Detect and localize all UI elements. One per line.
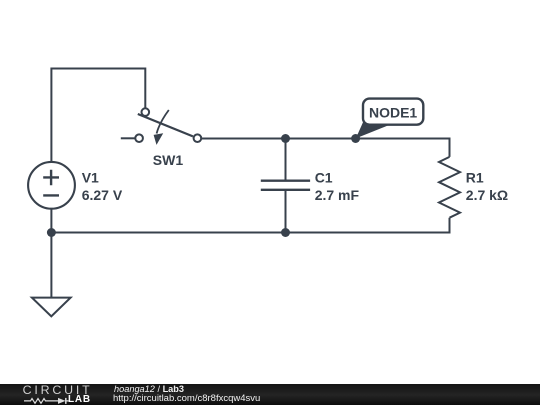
wire top-left loop from V1 to SW1: [51, 69, 145, 163]
CircuitLab logo schematic squiggle: [24, 397, 70, 405]
wire SW1 left stub: [121, 137, 135, 139]
svg-text:6.27 V: 6.27 V: [82, 187, 123, 203]
footer url: [113, 394, 260, 404]
label V1 value: [82, 169, 123, 203]
capacitor C1: [261, 139, 310, 233]
voltage source V1: [28, 162, 75, 209]
wire V1 bottom to ground: [50, 208, 52, 297]
node NODE1 callout pointer: [356, 122, 389, 138]
footer bar: [0, 384, 540, 405]
resistor R1: [439, 157, 460, 218]
svg-text:2.7 kΩ: 2.7 kΩ: [466, 187, 508, 203]
footer user and title: [114, 385, 184, 395]
svg-text:SW1: SW1: [153, 152, 184, 168]
wire SW1 right terminal to R1 top corner: [201, 139, 449, 157]
svg-text:NODE1: NODE1: [369, 104, 417, 120]
label C1 value: [315, 169, 360, 203]
svg-text:C1: C1: [315, 169, 333, 185]
junction at V1 bottom rail: [47, 228, 56, 237]
node NODE1 callout box: [363, 99, 423, 125]
CircuitLab logo wordmark CIRCUIT: [23, 386, 93, 396]
ground: [32, 298, 71, 317]
junction at C1 top: [281, 134, 290, 143]
wire bottom rail: [51, 218, 449, 233]
svg-text:2.7 mF: 2.7 mF: [315, 187, 360, 203]
switch SW1 actuation arrow: [154, 110, 169, 145]
CircuitLab logo wordmark LAB: [68, 395, 91, 405]
svg-text:V1: V1: [82, 169, 99, 185]
label R1 value: [466, 169, 508, 203]
node NODE1 junction dot: [351, 134, 360, 143]
switch SW1 blade: [138, 114, 193, 136]
switch SW1 terminal circles: [135, 108, 201, 142]
svg-text:R1: R1: [466, 169, 484, 185]
junction at C1 bottom: [281, 228, 290, 237]
